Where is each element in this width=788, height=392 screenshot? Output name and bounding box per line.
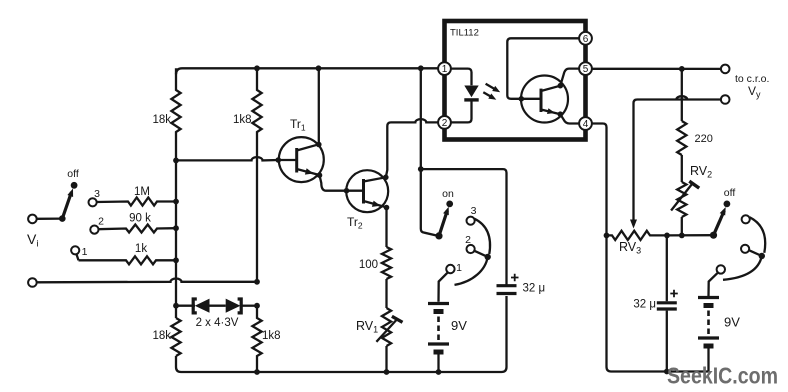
- label Vi: [27, 231, 38, 250]
- node top rail / 1k8 junction: [254, 65, 260, 71]
- resistor 1M: [97, 186, 179, 206]
- resistor 18k lower: [152, 318, 180, 356]
- wire emitter to pin4: [560, 114, 579, 123]
- svg-text:2: 2: [98, 216, 104, 228]
- resistor 18k upper: [152, 68, 180, 160]
- node RV3 / cap2: [664, 233, 670, 239]
- pin 6: [579, 32, 592, 45]
- svg-text:1: 1: [456, 262, 462, 274]
- svg-text:TIL112: TIL112: [450, 28, 479, 39]
- resistor 90k: [98, 213, 179, 233]
- svg-text:100: 100: [359, 259, 378, 271]
- wire Vy to RV3 wiper (hops over 220 chain): [630, 96, 721, 228]
- resistor 100: [359, 208, 391, 280]
- svg-text:1: 1: [442, 64, 448, 75]
- svg-text:4: 4: [583, 119, 589, 130]
- pin 5: [579, 62, 592, 75]
- LED (opto): [451, 69, 479, 123]
- svg-text:3: 3: [471, 205, 477, 217]
- wire selector arc (battery2): [723, 217, 765, 279]
- svg-text:1k8: 1k8: [233, 114, 252, 126]
- node middle loop tap: [418, 166, 424, 172]
- wire Tr1 emitter to Tr2 base: [320, 175, 364, 193]
- light arrows (opto): [483, 84, 500, 100]
- battery B1 9V: [428, 304, 467, 373]
- switch contact 2 (input): [90, 216, 104, 234]
- pin 1: [438, 62, 451, 75]
- svg-text:1k: 1k: [135, 243, 147, 255]
- wire pin4 down right bus: [592, 124, 611, 372]
- resistor 1k: [79, 243, 179, 264]
- transistor Tr1: [276, 117, 324, 182]
- wire contact3 to battery2: [709, 273, 718, 296]
- node top rail / Tr1 collector junction: [316, 65, 322, 71]
- wire middle loop top (to capacitor branch): [421, 169, 507, 284]
- node rail/1k8: [254, 369, 260, 375]
- label 2 x 4.3V: [196, 317, 239, 329]
- transistor Tr2: [346, 170, 389, 230]
- svg-text:32 μ: 32 μ: [633, 299, 656, 311]
- wire top rail: [176, 68, 438, 74]
- battery B2 9V: [698, 298, 740, 372]
- resistor 1k8 upper: [233, 68, 262, 282]
- wire mid rail to Tr1 base (hops over 1k8 line): [173, 157, 278, 163]
- svg-text:1k8: 1k8: [262, 330, 281, 342]
- switch on-switch (battery1): [435, 188, 454, 239]
- diode D2 (zener, points right): [210, 299, 258, 313]
- switch contact 1 (battery2): [742, 215, 750, 223]
- svg-text:2: 2: [465, 234, 471, 246]
- wire bottom rail (right): [611, 369, 709, 375]
- switch off-switch (battery2): [710, 187, 735, 239]
- wire collector to pin5: [560, 69, 579, 86]
- resistor 220: [677, 69, 713, 155]
- svg-text:1: 1: [82, 246, 88, 258]
- switch contact 1 (battery1): [446, 262, 462, 274]
- terminal Vi lower: [28, 278, 37, 287]
- svg-text:on: on: [442, 188, 454, 200]
- switch contact 3 (battery2): [717, 265, 725, 273]
- svg-text:SeekIC.com: SeekIC.com: [667, 363, 778, 389]
- watermark SeekIC.com: [667, 363, 778, 389]
- capacitor C2 32u: [633, 235, 677, 371]
- potentiometer RV1: [356, 279, 403, 372]
- wire LED bus: top rail down to on-switch pivot: [421, 68, 437, 235]
- wire pin5 to c.r.o. terminal: [592, 66, 721, 72]
- switch contact 3 (input): [89, 188, 101, 206]
- svg-text:18k: 18k: [152, 330, 171, 342]
- svg-text:32 μ: 32 μ: [523, 283, 546, 295]
- wire bottom rail (left/middle): [176, 296, 507, 372]
- node top rail / LED-switch branch junction: [418, 65, 424, 71]
- wire Vi lower to 1k8 bus (hops over left bus): [37, 279, 260, 285]
- svg-text:2: 2: [442, 118, 448, 129]
- svg-text:off: off: [724, 187, 736, 199]
- wire Tr2 collector to opto pin 2 (hops over switch branch): [386, 119, 438, 177]
- pin 2: [438, 116, 451, 129]
- potentiometer RV3: [604, 231, 667, 256]
- wire selector arc (battery1): [455, 219, 491, 285]
- svg-text:5: 5: [583, 64, 589, 75]
- svg-text:2 x 4·3V: 2 x 4·3V: [196, 317, 239, 329]
- switch input off-switch arm: [37, 168, 79, 222]
- svg-text:off: off: [67, 168, 79, 180]
- node diode row right: [254, 303, 260, 309]
- svg-text:18k: 18k: [152, 114, 171, 126]
- potentiometer RV2: [671, 155, 712, 235]
- svg-text:3: 3: [94, 188, 100, 200]
- switch contact 2 (battery1): [465, 234, 475, 253]
- wire RV3 row to off switch pivot: [667, 233, 714, 239]
- pin 4: [579, 117, 592, 130]
- switch contact 3 (battery1): [467, 205, 477, 225]
- terminal to c.r.o. upper: [721, 65, 770, 85]
- svg-text:220: 220: [695, 133, 713, 145]
- wire contact1 to battery1: [439, 273, 448, 302]
- resistor 1k8 lower: [252, 306, 280, 372]
- svg-text:1M: 1M: [134, 186, 150, 198]
- svg-text:6: 6: [583, 34, 589, 45]
- opto-coupler U1 TIL112 box: [445, 21, 586, 140]
- svg-text:90 k: 90 k: [129, 213, 151, 225]
- wire pin6 loop to base: [507, 38, 579, 101]
- node rail/battery1: [436, 369, 442, 375]
- node rail/RV1 chain: [384, 369, 390, 375]
- switch contact 1 (input): [71, 246, 87, 260]
- svg-text:9V: 9V: [451, 318, 467, 333]
- terminal Vy lower: [721, 84, 761, 104]
- switch contact 2 (battery2): [741, 245, 749, 253]
- photo-transistor (opto): [521, 76, 568, 123]
- node diode row left: [173, 303, 179, 309]
- wire Tr1 collector to top rail: [318, 68, 320, 144]
- diode D1 (zener, points left): [176, 299, 210, 313]
- wire left bus x=176 (1M/90k/1k taps, diode row): [175, 160, 177, 367]
- terminal Vi upper: [28, 215, 37, 224]
- svg-text:9V: 9V: [724, 315, 740, 330]
- capacitor C1 32u: [497, 274, 546, 295]
